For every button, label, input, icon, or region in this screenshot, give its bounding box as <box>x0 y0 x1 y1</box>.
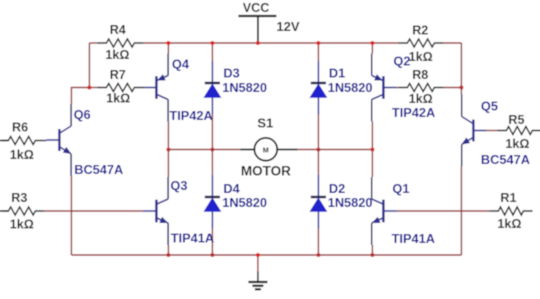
svg-text:S1: S1 <box>257 116 273 131</box>
resistor R3 <box>0 207 44 215</box>
svg-text:R1: R1 <box>500 191 516 205</box>
wire R7 left <box>89 87 97 89</box>
wire Q3 collector to motor node <box>167 150 169 178</box>
wire top rail right <box>443 42 461 44</box>
svg-text:BC547A: BC547A <box>74 162 123 177</box>
wire motor node right <box>297 149 372 151</box>
svg-text:Q4: Q4 <box>172 57 190 72</box>
wire R7 to Q4 base <box>142 87 145 89</box>
wire Q1 emitter to bottom rail <box>371 245 373 255</box>
junction ground/bottom rail <box>256 253 260 257</box>
junction R8/right rail <box>459 86 463 90</box>
svg-text:D4: D4 <box>223 181 240 196</box>
wire top rail left <box>89 42 97 44</box>
resistor R1 <box>489 207 532 215</box>
Q4 emitter arrow <box>156 74 166 83</box>
svg-text:12V: 12V <box>276 19 299 34</box>
diode D1 <box>310 61 326 115</box>
junction D2/bottom rail <box>316 253 320 257</box>
resistor R7 <box>97 84 143 92</box>
svg-text:D1: D1 <box>329 65 345 80</box>
svg-text:1kΩ: 1kΩ <box>505 137 529 151</box>
svg-text:1kΩ: 1kΩ <box>105 48 129 62</box>
svg-text:R8: R8 <box>412 68 428 82</box>
transistor Q4 <box>143 54 168 122</box>
svg-text:1N5820: 1N5820 <box>222 195 267 210</box>
svg-text:TIP42A: TIP42A <box>169 108 212 123</box>
Q6 emitter arrow <box>63 147 73 157</box>
wire Q2 emitter to rail <box>371 43 373 54</box>
svg-text:1kΩ: 1kΩ <box>106 92 130 106</box>
ground <box>248 255 267 289</box>
svg-text:Q5: Q5 <box>481 99 498 114</box>
wire left rail vertical <box>88 43 90 88</box>
power VCC symbol <box>238 16 276 43</box>
wire Q2 base to R8 <box>397 87 399 89</box>
transistor Q6 <box>46 104 71 176</box>
resistor R6 <box>0 137 44 145</box>
wire Q1 base to R1 <box>397 210 490 212</box>
wire Q2 collector to motor node <box>371 122 373 150</box>
svg-text:R2: R2 <box>412 24 428 38</box>
svg-text:1N5820: 1N5820 <box>222 80 267 95</box>
wire Q5 emitter down to bottom rail <box>460 167 462 256</box>
diode D2 <box>310 175 326 229</box>
svg-text:1N5820: 1N5820 <box>328 80 373 95</box>
svg-text:MOTOR: MOTOR <box>241 164 291 179</box>
svg-text:D2: D2 <box>329 181 345 196</box>
wire D2 anode to bottom rail <box>317 229 319 256</box>
junction D4/bottom rail <box>210 253 214 257</box>
wire right rail upper <box>460 43 462 88</box>
junction D1/top rail <box>316 41 320 45</box>
junction Q2 emitter/top rail <box>370 41 374 45</box>
svg-text:TIP41A: TIP41A <box>171 231 214 246</box>
wire R3 to Q3 base <box>44 210 142 212</box>
wire Q4 emitter to rail <box>167 43 169 54</box>
svg-text:1N5820: 1N5820 <box>328 195 373 210</box>
junction VCC on rail <box>256 41 260 45</box>
svg-text:Q2: Q2 <box>393 54 410 69</box>
svg-text:VCC: VCC <box>243 1 270 15</box>
wire D4 anode to bottom rail <box>211 229 213 256</box>
resistor R5 <box>497 127 540 135</box>
wire R6 to Q6 base <box>44 140 46 142</box>
wire D3 anode to motor node <box>211 115 213 150</box>
Q5 emitter arrow <box>460 137 470 147</box>
svg-text:R7: R7 <box>110 68 126 82</box>
svg-text:R3: R3 <box>11 191 27 205</box>
wire Q3 emitter to bottom rail <box>167 245 169 255</box>
resistor R8 <box>398 84 443 92</box>
transistor Q1 <box>372 177 397 245</box>
wire Q6 emitter down <box>70 176 72 255</box>
wire R1 right stub <box>531 210 532 212</box>
svg-text:1kΩ: 1kΩ <box>409 92 433 106</box>
svg-text:BC547A: BC547A <box>481 152 530 167</box>
wire motor node left <box>168 149 240 151</box>
Q2 emitter arrow <box>374 74 384 83</box>
resistor R2 <box>398 39 443 47</box>
transistor Q5 <box>462 95 487 167</box>
junction D3/motor node <box>210 148 214 152</box>
wire D1 anode to motor node <box>317 115 319 150</box>
transistor Q2 <box>372 54 397 122</box>
wire Q1 collector to motor node <box>371 150 373 178</box>
wire Q5 base to R5 <box>486 130 497 132</box>
svg-text:Q3: Q3 <box>170 178 187 193</box>
svg-text:R4: R4 <box>110 23 126 37</box>
svg-text:TIP42A: TIP42A <box>392 105 435 120</box>
junction Q1 emitter/bottom rail <box>370 253 374 257</box>
transistor Q3 <box>143 177 168 245</box>
junction D1/motor node <box>316 148 320 152</box>
wire R6 left stub <box>2 140 8 142</box>
wire D3 cathode to rail <box>211 43 213 61</box>
svg-text:1kΩ: 1kΩ <box>409 50 433 64</box>
svg-text:1kΩ: 1kΩ <box>10 148 34 162</box>
wire right rail to Q5 collector <box>460 88 462 95</box>
svg-text:TIP41A: TIP41A <box>392 231 435 246</box>
junction Q4/Q3 motor node <box>166 148 170 152</box>
wire bottom rail <box>71 254 461 256</box>
junction Q2/Q1 motor node <box>370 148 374 152</box>
wire D2 cathode to motor node <box>317 150 319 176</box>
junction Q3 emitter/bottom rail <box>166 253 170 257</box>
wire top rail middle <box>143 42 398 44</box>
svg-text:M: M <box>263 145 269 154</box>
svg-text:D3: D3 <box>223 65 239 80</box>
wire D4 cathode to motor node <box>211 150 213 176</box>
diode D3 <box>204 61 220 115</box>
wire R8 to right rail <box>443 87 461 89</box>
junction D3/top rail <box>210 41 214 45</box>
junction Q4 emitter/top rail <box>166 41 170 45</box>
svg-text:1kΩ: 1kΩ <box>10 218 34 232</box>
svg-text:R5: R5 <box>508 113 524 127</box>
svg-text:Q1: Q1 <box>392 181 409 196</box>
Q1 emitter arrow <box>370 217 380 226</box>
Q3 emitter arrow <box>159 217 169 226</box>
motor S1 <box>240 138 297 161</box>
resistor R4 <box>97 39 143 47</box>
wire R3 left stub <box>2 210 8 212</box>
svg-text:Q6: Q6 <box>74 107 91 122</box>
svg-text:1kΩ: 1kΩ <box>497 217 521 231</box>
wire Q6 collector to node <box>71 88 89 105</box>
wire Q4 collector to motor node <box>167 122 169 150</box>
wire D1 cathode to rail <box>317 43 319 61</box>
svg-text:R6: R6 <box>12 121 28 135</box>
diode D4 <box>204 175 220 229</box>
junction node left rail/R7 <box>87 86 91 90</box>
